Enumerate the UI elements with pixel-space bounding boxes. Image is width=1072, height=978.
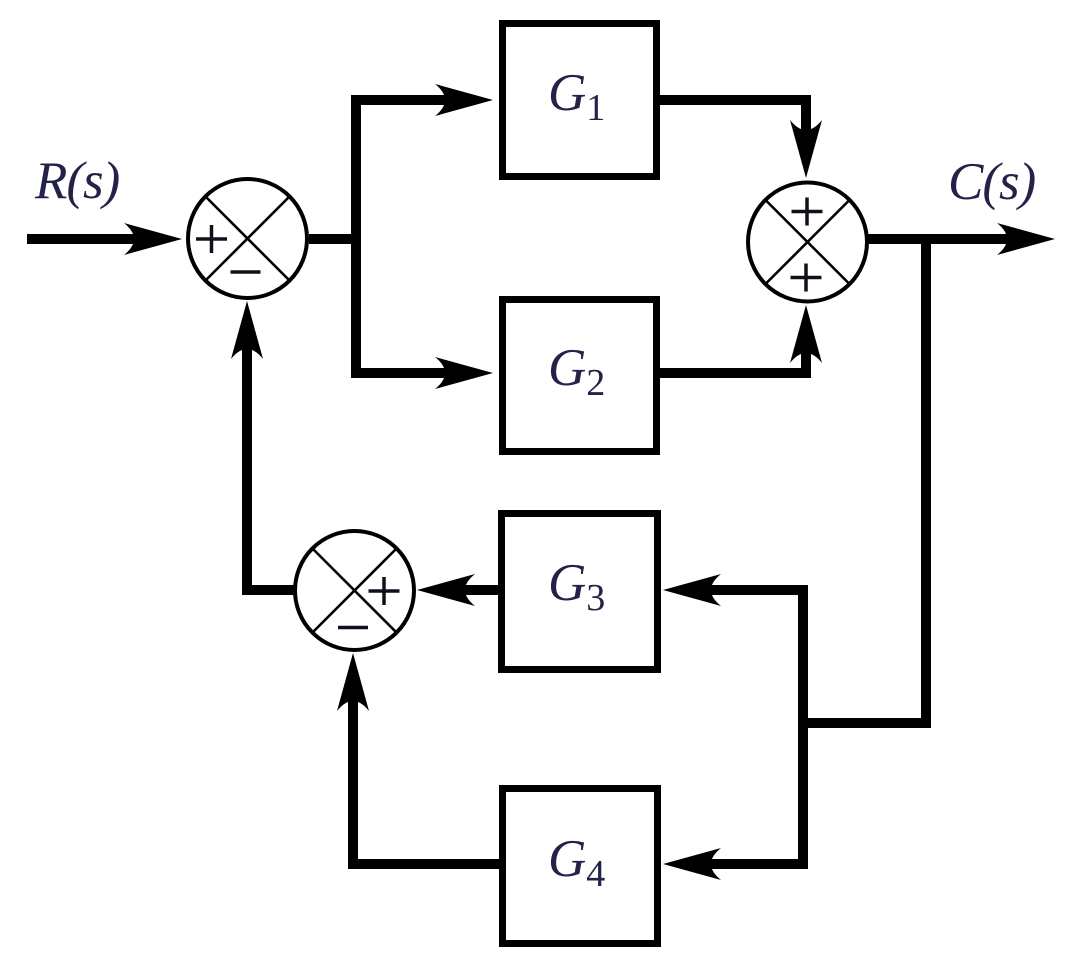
block G4 [503,789,658,944]
arrow up into S3 bottom [337,653,369,711]
wire feedback split vertical to G4 row [688,718,803,864]
arrow into G4 right side [663,848,721,880]
minus sign on S1 bottom input [231,270,261,274]
arrow into S3 right side [417,574,475,606]
arrow up into S2 bottom [790,305,822,363]
arrow into G3 right side [663,574,721,606]
minus sign on S3 bottom input [338,626,368,630]
summing junction S2 [748,183,867,302]
wire feedback split vertical to G3 row [688,590,803,728]
wire G4 output up to summer S3 bottom [353,678,499,864]
svg-text:C(s): C(s) [948,153,1036,211]
wire G2 output to summer S2 bottom [660,330,806,373]
wire S1 output to branch point [309,234,356,244]
arrow into G2 [435,357,493,389]
summing junction S1 [188,179,307,298]
plus sign on S1 left input [196,225,227,253]
block G2 [503,300,657,452]
wire input R(s) to summer S1 [27,234,157,244]
wire S3 output left then up to S1 bottom [247,326,295,590]
wire takeoff down then left to feedback split [803,239,926,723]
arrow into summer S1 [124,223,182,255]
block G1 [503,24,657,177]
plus sign on S3 right input [369,577,400,605]
arrow into G1 [435,84,493,116]
wire G3 output to summer S3 right [442,585,498,595]
svg-text:R(s): R(s) [34,152,120,210]
plus sign on S2 top input [792,198,823,226]
block G3 [502,514,658,670]
wire S2 output to C(s) with takeoff node [868,234,1030,244]
arrow output C(s) [997,223,1055,255]
arrow down into S2 top [790,120,822,178]
wire branch vertical with top branch to G1 [356,100,468,373]
summing junction S3 [295,531,414,650]
arrow up into S1 bottom [231,301,263,359]
plus sign on S2 bottom input [791,264,822,292]
wire G1 output to summer S2 top [660,100,806,153]
